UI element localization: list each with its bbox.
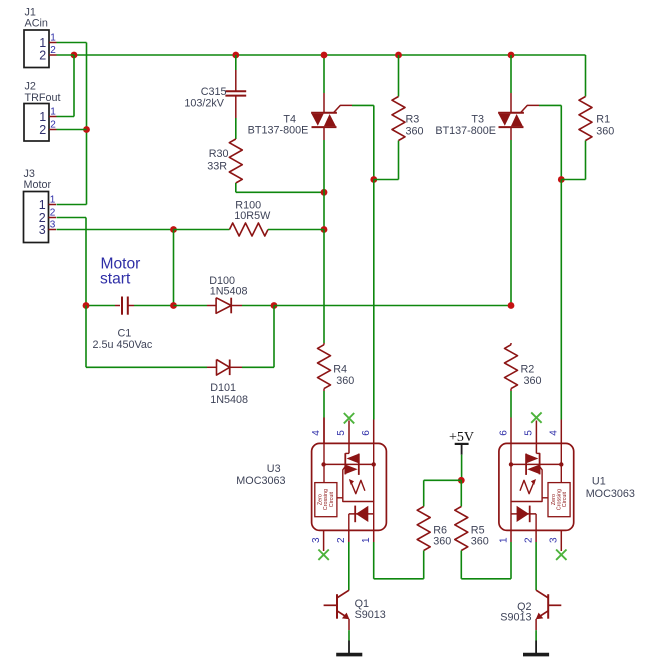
svg-text:2: 2: [524, 537, 535, 543]
label R1: [596, 114, 614, 138]
svg-text:360: 360: [406, 126, 424, 138]
wire C315 to R30: [235, 96, 237, 139]
junction D100/D101: [271, 302, 278, 309]
resistor R4: [318, 343, 331, 391]
junction gate/R3: [370, 176, 377, 183]
label J3: [24, 168, 52, 191]
wire AC top rail: [74, 54, 586, 56]
resistor R2: [505, 343, 518, 391]
svg-text:103/2kV: 103/2kV: [184, 98, 224, 110]
svg-text:+5V: +5V: [449, 430, 474, 445]
svg-text:2: 2: [50, 208, 56, 219]
svg-text:Motor: Motor: [24, 179, 52, 191]
svg-text:6: 6: [499, 430, 510, 436]
svg-text:1: 1: [499, 537, 510, 543]
svg-text:1: 1: [50, 195, 56, 206]
ground Q2: [523, 641, 549, 655]
pin numbers U3 top: [311, 430, 372, 436]
diode U1 internal LED: [511, 506, 536, 523]
junction row/T3col: [508, 302, 515, 309]
wire D101 right: [230, 306, 274, 368]
svg-text:D101: D101: [210, 382, 236, 394]
junction T4 top rail: [321, 52, 328, 59]
svg-text:2: 2: [50, 120, 56, 131]
wire T3 bottom: [510, 127, 512, 305]
svg-text:3: 3: [50, 220, 56, 231]
node U1 internal rail: [509, 462, 564, 466]
svg-text:360: 360: [336, 375, 354, 387]
svg-text:1: 1: [39, 198, 46, 212]
wire U1 pin3 stub: [560, 530, 562, 551]
wire R2 to U1 pin6: [510, 391, 512, 443]
wire node to C1 row: [173, 230, 175, 306]
node Motor start label: [100, 256, 140, 288]
svg-text:U1: U1: [592, 476, 606, 488]
svg-text:2: 2: [336, 537, 347, 543]
triac T4: [311, 113, 337, 127]
wire J3 pin2 down to C1 row: [57, 218, 87, 306]
svg-text:T3: T3: [471, 114, 484, 126]
wire R100 left lead: [174, 229, 230, 231]
no-connect X U1 pin3: [556, 550, 566, 560]
svg-text:2: 2: [50, 45, 56, 56]
svg-text:R4: R4: [333, 363, 347, 375]
wire J1 pin2: [57, 54, 75, 56]
junction T3 top: [508, 52, 515, 59]
transistor Q2: [536, 590, 562, 619]
resistor R3: [392, 97, 405, 141]
junction R3 top: [395, 52, 402, 59]
wire U1 pin5 stub: [536, 421, 540, 454]
svg-text:3: 3: [311, 537, 322, 543]
junction gate/R1: [558, 176, 565, 183]
wire Q1 emitter: [348, 619, 350, 641]
label R2: [521, 363, 542, 387]
wire J2 pin2: [57, 129, 87, 131]
diode D101: [217, 360, 230, 376]
wire gate col down: [373, 105, 375, 179]
wire U3 pin2 inner: [348, 514, 350, 531]
svg-text:1: 1: [50, 33, 56, 44]
svg-text:Q1: Q1: [355, 598, 369, 610]
svg-text:4: 4: [311, 430, 322, 436]
wire U3 pin2 to Q1: [348, 530, 350, 590]
svg-text:2: 2: [39, 48, 46, 62]
svg-text:5: 5: [524, 430, 535, 436]
wire R100 right lead: [268, 229, 324, 231]
junction C1/vert: [170, 302, 177, 309]
wire T4 top: [323, 55, 325, 113]
label Q2: [500, 601, 531, 624]
svg-text:MOC3063: MOC3063: [236, 475, 285, 487]
svg-text:2: 2: [39, 123, 46, 137]
junction R100/T4col: [321, 226, 328, 233]
triac T3: [498, 113, 524, 127]
capacitor C1: [122, 297, 128, 315]
wire C315 lead: [235, 55, 237, 91]
wire U1 pin6 inner: [510, 443, 512, 464]
pin numbers U1 bottom: [499, 537, 560, 543]
svg-text:ACin: ACin: [25, 18, 48, 30]
wire J1 pin1 to J3 pin1 vertical: [57, 43, 87, 205]
node U3 internal rail: [321, 462, 376, 466]
wire gate col to U1 pin4: [560, 180, 562, 444]
resistor R100: [230, 223, 269, 236]
label C315: [184, 86, 226, 110]
wire U1 pin4 inner: [560, 443, 562, 482]
wire R6 bottom to U3 pin1: [374, 542, 424, 579]
wire R30 bottom row: [236, 183, 324, 192]
wire R4 to U3 pin4: [323, 391, 325, 443]
svg-text:360: 360: [433, 536, 451, 548]
resistor R1: [579, 97, 592, 141]
wire U3 pin6 inner: [373, 443, 375, 464]
svg-text:6: 6: [361, 430, 372, 436]
no-connect X U3 pin3: [318, 550, 328, 560]
resistor R6: [417, 507, 430, 551]
node U1 zero crossing circuit box: [548, 483, 570, 517]
svg-text:U3: U3: [267, 463, 281, 475]
wire U1 pin1 inner: [510, 502, 512, 543]
label J1: [25, 7, 48, 30]
svg-text:1: 1: [361, 537, 372, 543]
wire to D100: [174, 305, 217, 307]
node U1 light arrow: [520, 479, 536, 494]
supply +5V symbol: [449, 430, 474, 455]
wire gate junction to R3: [374, 141, 399, 180]
op-amp U3 body (optocoupler MOC3063 outline): [312, 443, 387, 530]
node U3 zero crossing circuit box: [315, 483, 337, 517]
wire R5 bottom to U1 pin1: [461, 542, 511, 579]
label U3: [236, 463, 285, 487]
junction +5V node: [458, 477, 465, 484]
wire J3 pin3 row: [57, 229, 174, 231]
no-connect X U3 pin5: [344, 413, 354, 423]
wire C1 right: [128, 305, 174, 307]
resistor R30: [229, 139, 242, 183]
svg-text:360: 360: [471, 536, 489, 548]
label C1: [93, 328, 153, 352]
connector J1: [24, 30, 57, 68]
svg-text:4: 4: [549, 430, 560, 436]
label R3: [406, 114, 424, 138]
svg-text:1N5408: 1N5408: [210, 394, 248, 406]
op-amp U1 body (optocoupler MOC3063 outline): [499, 443, 574, 530]
wire R3 top lead: [398, 55, 400, 97]
wire U1 zc lead: [542, 497, 548, 499]
junction J1.2 node: [71, 52, 78, 59]
svg-text:1: 1: [50, 107, 56, 118]
svg-text:J2: J2: [25, 81, 36, 93]
svg-text:1N5408: 1N5408: [210, 286, 248, 298]
wire gate junction to R1: [561, 141, 585, 180]
wire U3 pin3 stub: [323, 530, 325, 551]
label T4: [248, 114, 309, 137]
wire T3 gate col down: [560, 105, 562, 179]
ground Q1: [336, 641, 362, 655]
svg-text:R30: R30: [209, 148, 229, 160]
svg-text:360: 360: [596, 126, 614, 138]
wire C1 row to T3 col: [274, 305, 511, 307]
label Q1: [355, 598, 386, 621]
diode D100: [216, 298, 231, 314]
label R5: [471, 525, 489, 548]
svg-text:start: start: [100, 271, 131, 288]
wire D101 left: [86, 306, 217, 368]
svg-text:10R5W: 10R5W: [234, 210, 271, 222]
wire C1 row left: [86, 305, 120, 307]
wire T4 gate: [334, 105, 374, 112]
pin numbers U3 bottom: [311, 537, 372, 543]
svg-text:S9013: S9013: [500, 612, 531, 624]
svg-text:5: 5: [336, 430, 347, 436]
no-connect X U1 pin5: [531, 412, 541, 422]
wire U3 pin4 stub: [323, 418, 325, 483]
wire T4 col to R4: [323, 230, 325, 344]
wire R1 top lead: [585, 55, 587, 97]
capacitor C315: [225, 91, 246, 95]
wire U1 pin2 inner: [535, 514, 537, 531]
svg-text:2.5u 450Vac: 2.5u 450Vac: [93, 339, 153, 351]
svg-text:BT137-800E: BT137-800E: [248, 125, 309, 137]
svg-text:R1: R1: [596, 114, 610, 126]
transistor Q1: [324, 590, 350, 619]
wire U1 pin2 to Q2: [535, 530, 537, 590]
label R30: [207, 148, 228, 173]
svg-text:C1: C1: [118, 328, 132, 340]
node U3 light arrow: [349, 479, 365, 494]
wire U3 pin1 inner: [373, 502, 375, 543]
label J2: [25, 81, 61, 105]
svg-text:33R: 33R: [207, 161, 227, 173]
resistor R5: [455, 507, 468, 551]
svg-text:1: 1: [39, 110, 46, 124]
connector J3: [24, 192, 57, 243]
label R100: [234, 199, 271, 222]
svg-text:3: 3: [549, 537, 560, 543]
transistor U1 internal triac: [526, 453, 540, 475]
wire U1 gate loop: [511, 464, 542, 501]
junction at J2 pin2: [83, 126, 90, 133]
svg-text:BT137-800E: BT137-800E: [435, 125, 496, 137]
label T3: [435, 114, 496, 138]
wire Q2 emitter: [535, 619, 537, 641]
label R4: [333, 363, 354, 387]
connector J2: [24, 104, 57, 142]
wire U3 pin5 stub: [345, 421, 349, 454]
svg-text:3: 3: [39, 223, 46, 237]
wire +5V to R6: [424, 480, 462, 506]
wire D100 right: [231, 305, 274, 307]
svg-text:S9013: S9013: [355, 609, 386, 621]
junction C315 top: [232, 52, 239, 59]
label U1: [586, 476, 635, 501]
wire U3 gate loop: [343, 464, 374, 501]
pin numbers U1 top: [499, 430, 560, 436]
wire U3 zc lead: [337, 497, 343, 499]
wire T3 top: [510, 55, 512, 113]
svg-text:TRFout: TRFout: [25, 92, 61, 104]
wire gate col to U3 pin6: [373, 180, 375, 444]
label R6: [433, 525, 451, 548]
junction J3.3/R100: [170, 226, 177, 233]
label D101: [210, 382, 248, 406]
wire +5V down: [461, 455, 463, 481]
wire R5 top: [460, 480, 462, 506]
svg-text:R2: R2: [521, 363, 535, 375]
junction C1 left: [83, 302, 90, 309]
svg-text:R3: R3: [406, 114, 420, 126]
transistor U3 internal triac: [345, 453, 359, 475]
junction R30/T4: [321, 189, 328, 196]
wire T3 gate: [521, 105, 562, 112]
label D100: [209, 275, 247, 298]
diode U3 internal LED: [349, 506, 374, 523]
wire J2 pin1 drop: [57, 55, 75, 117]
wire T4 bottom: [323, 127, 325, 192]
svg-text:C315: C315: [201, 86, 227, 98]
svg-text:MOC3063: MOC3063: [586, 488, 635, 500]
wire T4 to R100 node: [323, 192, 325, 229]
svg-text:360: 360: [524, 375, 542, 387]
